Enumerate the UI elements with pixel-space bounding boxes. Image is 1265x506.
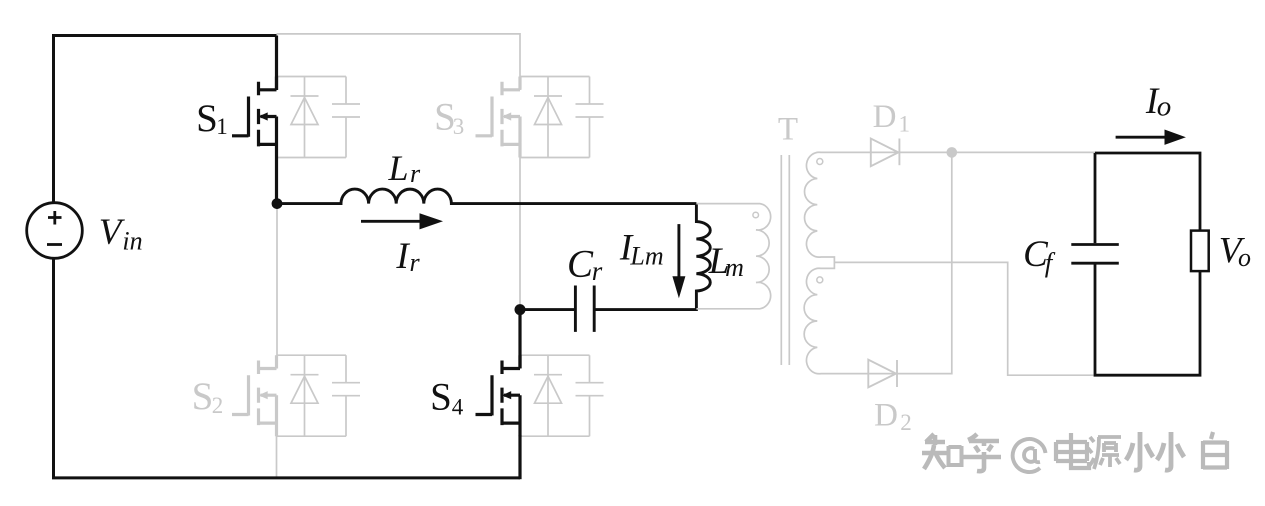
voltage source Vin circle bbox=[27, 203, 83, 259]
transformer core bbox=[781, 155, 789, 365]
wire S1 drain lead bbox=[275, 36, 278, 91]
diode D1 (gray) bbox=[871, 139, 900, 167]
svg-text:f: f bbox=[1045, 248, 1056, 278]
watermark 知乎 @电源小小白 (drawn strokes) bbox=[922, 432, 1227, 472]
inductor Lm bbox=[594, 204, 710, 310]
label Lr bbox=[387, 148, 420, 188]
glyph 知 bbox=[922, 434, 947, 469]
label ILm bbox=[619, 228, 664, 271]
transformer secondary lower polarity dot bbox=[817, 277, 823, 283]
plus sign of Vin bbox=[48, 211, 62, 225]
resistor Vo load bbox=[1191, 231, 1209, 272]
svg-text:S: S bbox=[192, 375, 214, 418]
svg-text:r: r bbox=[410, 159, 421, 188]
transformer secondary upper polarity dot bbox=[817, 159, 823, 165]
svg-text:3: 3 bbox=[453, 114, 465, 139]
label Lm bbox=[708, 241, 744, 282]
diode-capacitor cell of S2 bbox=[277, 355, 361, 436]
svg-text:D: D bbox=[874, 398, 898, 434]
wire top rail gray (S1 drain to S3 drain) bbox=[277, 34, 521, 90]
svg-text:1: 1 bbox=[899, 112, 911, 137]
transistor S4 (black MOSFET) bbox=[476, 355, 521, 436]
arrow ILm bbox=[677, 224, 680, 279]
svg-text:Lm: Lm bbox=[629, 242, 663, 271]
svg-text:D: D bbox=[873, 99, 897, 135]
svg-text:r: r bbox=[592, 256, 603, 286]
svg-text:m: m bbox=[725, 253, 744, 282]
label Cr bbox=[567, 243, 603, 287]
svg-text:o: o bbox=[1238, 243, 1251, 272]
svg-text:S: S bbox=[196, 97, 218, 140]
wire left vertical lower + bottom rail black bbox=[54, 258, 521, 478]
label Io bbox=[1145, 81, 1171, 123]
svg-text:in: in bbox=[122, 227, 142, 256]
label Vin bbox=[99, 212, 143, 256]
label Ir bbox=[395, 236, 420, 277]
wire node B to S4 drain bbox=[518, 310, 521, 368]
diode D2 (gray) bbox=[868, 360, 897, 388]
capacitor Cf plates bbox=[1071, 245, 1119, 264]
transistor S3 (gray MOSFET) bbox=[476, 77, 521, 158]
wire S3 source to node B (gray link) bbox=[519, 156, 521, 306]
transformer secondary upper winding + wire to D1 and node C (gray) bbox=[804, 152, 952, 373]
transformer primary polarity dot bbox=[753, 212, 759, 218]
label S2 bbox=[192, 375, 224, 418]
svg-text:I: I bbox=[395, 236, 410, 277]
output loop black wires bbox=[1094, 153, 1202, 375]
node A junction dot bbox=[272, 198, 283, 209]
wire node A to S2 drain (gray link) bbox=[276, 206, 278, 356]
transistor S2 (gray MOSFET) bbox=[232, 355, 277, 436]
wire node B to Cr left plate bbox=[520, 308, 575, 311]
diode-capacitor cell of S1 bbox=[277, 77, 361, 158]
svg-text:r: r bbox=[409, 248, 420, 277]
glyph 源 bbox=[1088, 437, 1121, 469]
label S4 bbox=[430, 376, 464, 420]
diode-capacitor cell of S4 bbox=[520, 355, 604, 436]
wire S2 source to bottom rail (gray) bbox=[276, 435, 278, 478]
label D2 bbox=[874, 398, 912, 436]
svg-text:o: o bbox=[1157, 91, 1172, 123]
glyph @ bbox=[1013, 439, 1046, 472]
wire centre tap to output return (gray) bbox=[834, 262, 1093, 375]
svg-text:L: L bbox=[387, 148, 408, 188]
svg-text:C: C bbox=[567, 243, 594, 286]
glyph 白 bbox=[1203, 432, 1227, 469]
label D1 bbox=[873, 99, 910, 137]
capacitor Cr plates bbox=[575, 286, 594, 332]
arrow Ir bbox=[361, 220, 423, 223]
diode-capacitor cell of S3 bbox=[520, 77, 604, 158]
wire rectifier node C to output (gray) bbox=[952, 151, 1095, 153]
label S1 bbox=[196, 97, 228, 140]
glyph 小 (first) bbox=[1126, 432, 1153, 470]
minus sign of Vin bbox=[47, 243, 62, 246]
wire S1 source lead to node A bbox=[275, 158, 278, 204]
transformer T primary winding (gray) bbox=[696, 204, 770, 309]
svg-text:T: T bbox=[778, 112, 798, 148]
inductor Lr with series wire bbox=[277, 189, 696, 204]
node C junction dot (gray) bbox=[947, 147, 958, 158]
svg-text:2: 2 bbox=[212, 393, 224, 418]
wire S4 source lead to bottom rail bbox=[518, 436, 521, 480]
node B junction dot bbox=[515, 304, 526, 315]
arrow Io bbox=[1116, 136, 1167, 139]
svg-text:4: 4 bbox=[452, 395, 464, 420]
svg-text:2: 2 bbox=[900, 410, 912, 435]
svg-text:1: 1 bbox=[216, 114, 228, 139]
label Vo bbox=[1219, 231, 1251, 273]
label S3 bbox=[434, 96, 464, 140]
glyph 乎 bbox=[963, 434, 1001, 471]
glyph 小 (second) bbox=[1157, 432, 1184, 470]
wire left vertical + top rail black bbox=[54, 36, 277, 203]
glyph 电 bbox=[1056, 433, 1089, 468]
transistor S1 (black MOSFET) bbox=[232, 77, 277, 158]
label Cf bbox=[1023, 234, 1056, 278]
svg-text:S: S bbox=[430, 376, 452, 419]
